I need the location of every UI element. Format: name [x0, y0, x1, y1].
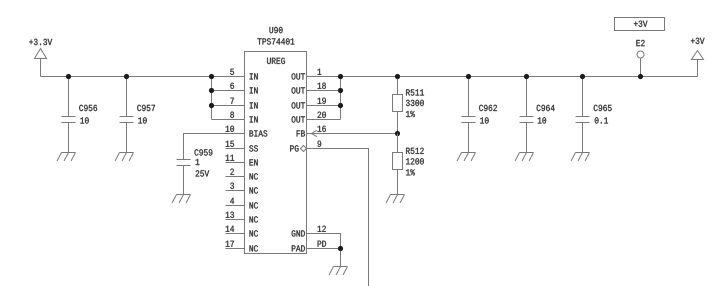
- wire: PAD pin: [307, 248, 341, 250]
- junction: C956 / input bus: [66, 74, 71, 79]
- pin 20 OUT (right): [292, 112, 326, 123]
- pin PD PAD (right): [292, 241, 326, 252]
- junction: FB node: [395, 131, 400, 136]
- capacitor C962 10: [462, 77, 497, 153]
- junction: IN bus pin 7 row: [209, 103, 214, 108]
- junction: C962 / output bus: [466, 74, 471, 79]
- pin 1 OUT (right): [292, 69, 322, 80]
- pin 13 NC (left): [226, 212, 258, 223]
- wire: branch to IN pin 6: [212, 90, 245, 92]
- ground (C964): [515, 153, 534, 162]
- pin 9 PG (right): [290, 141, 321, 152]
- pin 8 IN (left): [230, 112, 257, 123]
- wire: OUT pin 20 branch: [307, 119, 341, 121]
- test point E2 circle: [637, 51, 644, 58]
- capacitor C956 10: [62, 77, 98, 153]
- capacitor C965 0.1: [576, 77, 612, 153]
- ground (C956): [57, 153, 76, 162]
- wire: GND/PAD down to ground: [340, 249, 342, 267]
- power symbol +3.3V: [29, 39, 52, 59]
- regulator U90 TPS74401: [245, 27, 307, 254]
- ground (C962): [457, 153, 476, 162]
- ground (C959): [172, 195, 191, 204]
- wire: OUT vertical bus: [340, 77, 342, 120]
- open-drain diamond on PG pin: [300, 146, 306, 152]
- junction: OUT bus pin 1 row: [338, 74, 343, 79]
- test point E2 label: [636, 40, 644, 46]
- wire: +3.3V symbol to input bus: [40, 59, 42, 77]
- wire: OUT pin 1 to output bus: [307, 76, 698, 78]
- pin 19 OUT (right): [292, 98, 326, 109]
- pin 3 NC (left): [226, 183, 258, 194]
- wire: branch to IN pin 8: [212, 119, 245, 121]
- junction: GND meets PAD: [338, 246, 343, 251]
- junction: IN bus pin 5 row: [209, 74, 214, 79]
- junction: OUT bus pin 19 row: [338, 103, 343, 108]
- junction: IN bus pin 6 row: [209, 88, 214, 93]
- arrow on FB wire: [312, 130, 318, 136]
- pin 16 FB (right): [297, 126, 326, 137]
- capacitor C964 10: [520, 77, 555, 153]
- junction: OUT bus pin 18 row: [338, 88, 343, 93]
- junction: R511 / output bus: [395, 74, 400, 79]
- pin 7 IN (left): [230, 98, 257, 109]
- wire: E2 to output bus: [640, 58, 642, 77]
- pin 17 NC (left): [226, 241, 258, 252]
- wire: GND pin 12: [307, 234, 341, 249]
- wire: +3.3V input bus: [41, 76, 245, 78]
- resistor R511 3300 1%: [393, 77, 424, 134]
- pin 15 SS (left): [226, 141, 258, 152]
- net label +3V (boxed): [615, 18, 665, 31]
- pin 2 NC (left): [226, 169, 258, 180]
- power symbol +3V: [691, 38, 705, 60]
- pin 4 NC (left): [226, 198, 258, 209]
- junction: C964 / output bus: [524, 74, 529, 79]
- pin 5 IN (left): [230, 69, 257, 80]
- ground (C957): [115, 153, 134, 162]
- wire: +3V symbol to output bus: [697, 60, 699, 77]
- capacitor C959 1 25V: [177, 149, 213, 194]
- ground (R512): [386, 195, 405, 204]
- junction: C965 / output bus: [580, 74, 585, 79]
- wire: branch to IN pin 7: [212, 105, 245, 107]
- junction: C957 / input bus: [124, 74, 129, 79]
- ground (GND/PAD): [329, 267, 348, 276]
- pin 10 BIAS (left): [226, 126, 268, 137]
- wire: BIAS pin 10 to C959: [184, 134, 245, 160]
- pin 18 OUT (right): [292, 83, 326, 94]
- resistor R512 1200 1%: [393, 134, 424, 195]
- junction: E2 / output bus: [638, 74, 643, 79]
- pin 11 EN (left): [226, 155, 258, 166]
- wire: OUT pin 18 branch: [307, 90, 341, 92]
- wire: FB pin 16 to divider node: [307, 133, 398, 135]
- pin 12 GND (right): [292, 226, 326, 237]
- wire: OUT pin 19 branch: [307, 105, 341, 107]
- capacitor C957 10: [120, 77, 155, 153]
- wire: PG pin 9 down off-page: [307, 149, 369, 286]
- pin 6 IN (left): [230, 83, 257, 94]
- wire: IN pin vertical bus: [211, 77, 213, 120]
- ground (C965): [571, 153, 590, 162]
- pin 14 NC (left): [226, 226, 258, 237]
